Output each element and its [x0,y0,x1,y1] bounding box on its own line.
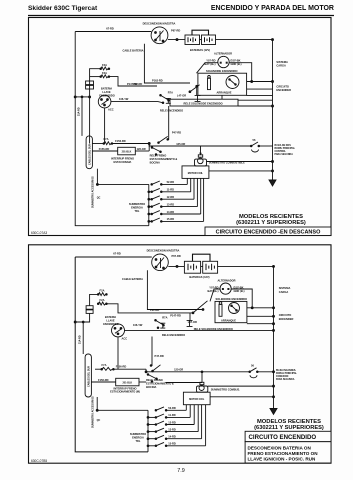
svg-text:LLAVE IGNICION - POSIC. RUN: LLAVE IGNICION - POSIC. RUN [248,457,316,462]
wire cable bateria drop [144,44,190,83]
svg-text:201-BLK: 201-BLK [122,151,132,154]
stub solenoid to relay box [221,95,223,99]
ignition switch S2 [112,324,125,337]
svg-text:F2A: F2A [102,71,107,75]
svg-text:RELE SOLENOIDE ENCENDIDO: RELE SOLENOIDE ENCENDIDO [184,101,223,105]
wire fuel solenoid to bus [207,161,273,163]
svg-text:ENCENDER: ENCENDER [276,88,291,92]
svg-text:ESTACIONAM.: ESTACIONAM. [114,160,132,164]
svg-text:SOLENOIDE ENCENDIDO: SOLENOIDE ENCENDIDO [206,69,238,73]
svg-text:BOCINA: BOCINA [146,385,156,389]
svg-text:21A-RD: 21A-RD [79,335,82,344]
alternator G1 [220,283,231,294]
relay freno cluster [151,147,153,149]
fuse F1 [98,293,105,296]
header rule [28,15,334,17]
svg-text:QC: QC [97,196,101,199]
svg-text:RELE FRENO: RELE FRENO [150,154,167,158]
svg-text:11-RD: 11-RD [167,188,174,192]
svg-text:DESCONEXION BATERIA ON: DESCONEXION BATERIA ON [248,445,312,450]
wire key to relay 106-YW [111,101,158,103]
solenoid terminal [208,78,211,89]
svg-text:INTERRUP FRENO: INTERRUP FRENO [111,156,134,160]
svg-text:FRENO ESTACIONAMIENTO ON: FRENO ESTACIONAMIENTO ON [248,451,319,456]
disconnect switch S1 DESCONEXION MAESTRA [151,27,168,44]
wire relay to bus [189,313,191,320]
svg-text:PARA SEGUNDA: PARA SEGUNDA [276,378,295,381]
svg-text:R7A: R7A [168,91,173,95]
wire switch to batteries [168,265,184,267]
svg-text:CABLE BATERIA: CABLE BATERIA [122,277,143,281]
wire motor coil to bus [210,396,273,398]
relay box RELE SOLENOIDE ENCENDIDO [170,99,238,106]
ignition switch S2 [98,95,111,108]
svg-text:106-YW: 106-YW [119,97,129,101]
ladder switch row 52-RD [155,405,186,411]
svg-text:P67-RD: P67-RD [171,29,180,33]
svg-text:P47-RD: P47-RD [155,354,164,358]
svg-text:SOLENOIDE ENCENDIDO: SOLENOIDE ENCENDIDO [216,297,248,301]
battery B1 [184,261,200,273]
relay coil T1 [166,98,171,103]
ground bus vertical [272,40,274,180]
wire motor coil to bus [209,170,273,172]
svg-text:R7A: R7A [162,315,167,319]
svg-text:DESCONEXION MAESTRA: DESCONEXION MAESTRA [143,21,176,25]
svg-text:ENERGIA: ENERGIA [131,206,143,210]
svg-text:RELE FRENO: RELE FRENO [146,378,163,382]
battery B2 [202,35,216,45]
svg-text:13-RD: 13-RD [168,427,176,431]
bottom schematic frame [29,245,332,463]
fuel solenoid L1 [197,386,208,392]
svg-text:BATERIA: BATERIA [105,315,116,319]
wire glow plug row [146,369,249,372]
wire alternator B+ [197,63,218,73]
svg-text:BUJIA DE DOS: BUJIA DE DOS [275,144,292,147]
svg-text:F156-RD: F156-RD [99,147,110,151]
relay K1 coil contacts [160,94,162,96]
svg-text:SUMINISTRO: SUMINISTRO [129,202,145,206]
svg-text:ALTERNADOR: ALTERNADOR [214,52,232,56]
ladder switch row 13-RD [147,405,198,433]
svg-text:BATERIAS (12V): BATERIAS (12V) [190,48,210,52]
wire key ACC down [104,108,106,144]
svg-text:125-OR: 125-OR [174,368,183,372]
relay K1 contact [196,85,198,87]
relay coil T2 [187,320,193,326]
wire fuse feeds [90,294,99,305]
relay K1 coil contacts [155,319,157,321]
wire left riser to ladder [75,257,148,452]
svg-text:BATERIAS (12V): BATERIAS (12V) [189,275,209,279]
svg-text:DESCONEXION MAESTRA: DESCONEXION MAESTRA [147,248,180,252]
ladder feed row [97,409,148,411]
ground symbol [270,409,277,415]
svg-text:INTERRUP FRENO: INTERRUP FRENO [113,386,136,390]
svg-text:P162-RD: P162-RD [152,79,163,83]
svg-text:CABLES DEL SUR: CABLES DEL SUR [88,366,91,387]
ladder switch row 11-RD [147,405,190,419]
svg-text:TDL: TDL [134,209,139,213]
pill connector CABLES DEL SUR [86,136,92,169]
svg-text:SUMINISTRO: SUMINISTRO [130,432,146,436]
wire alternator GND to solenoid row [229,63,251,82]
glow plug switch 56 [250,145,252,147]
wire fuse feeds [90,69,101,144]
svg-text:14-RD: 14-RD [168,435,176,439]
svg-text:P147-RD: P147-RD [170,314,181,318]
svg-text:ARRANQUE: ARRANQUE [217,91,232,95]
svg-text:52-RD: 52-RD [167,180,175,184]
svg-text:ENERGIA: ENERGIA [132,436,144,440]
svg-text:F156-RD: F156-RD [116,364,127,368]
svg-text:14-RD: 14-RD [167,210,175,214]
svg-text:SUMINISTRO ACCESORIOS: SUMINISTRO ACCESORIOS [92,176,95,208]
wire solenoid to bus row2 [247,88,273,90]
svg-text:ENCENDER: ENCENDER [279,317,294,321]
svg-text:SISTEMA: SISTEMA [276,60,288,64]
battery series bridge [193,254,211,261]
wire fuse2 to relay [106,304,193,313]
svg-text:RELE ENCENDIDO: RELE ENCENDIDO [162,333,185,337]
wire battery to ground bus [216,39,273,41]
SCHEMATIC 2 CONTENT [74,248,297,452]
relay K1 contact [192,312,194,314]
wire 125-OR to fuel solenoid [149,144,200,155]
SCHEMATIC 1 CONTENT [74,21,295,225]
wire battery to ground bus [218,265,274,267]
motor coil box U2 MOTOR COIL [183,392,210,405]
svg-text:ARRANQUE: ARRANQUE [221,318,236,322]
svg-text:CIRCUITO ENCENDIDO: CIRCUITO ENCENDIDO [249,434,317,441]
relay coil T1 [160,323,165,328]
starter motor M1 [229,303,240,314]
svg-text:12-RD: 12-RD [168,420,176,424]
wire cable bateria drop [147,270,203,309]
svg-text:CARGA: CARGA [279,290,289,294]
svg-text:F7A: F7A [104,137,109,141]
svg-text:CONTROL: CONTROL [275,151,287,153]
svg-text:LLAVE: LLAVE [106,318,115,322]
connector blocks [86,306,93,310]
starter solenoid box U1 [215,301,247,322]
starter solenoid box U1 [198,73,247,95]
svg-text:P61-RD: P61-RD [150,308,159,312]
wire to pill connector [82,322,84,354]
top schematic frame [29,18,332,236]
wire pill to brake switch [92,150,117,152]
svg-text:LLAVE: LLAVE [102,90,111,94]
svg-text:ACC: ACC [122,336,128,340]
ladder switch row 14-RD [148,178,201,215]
svg-text:Y07-RD: Y07-RD [206,58,215,62]
ladder switch row 13-RD [148,178,197,207]
solenoid terminal [219,304,222,316]
ground bus vertical [273,266,275,408]
svg-text:F7A: F7A [102,363,107,367]
svg-text:5A: 5A [199,152,202,155]
wire brake switch out [135,150,149,152]
svg-text:BOMB. PRINCIPAL: BOMB. PRINCIPAL [275,147,296,150]
glow plug switch 56 [249,371,251,373]
wire solenoid to bus row1 [247,81,273,83]
wire pill to brake switch [91,381,115,383]
wire left riser to ladder [75,32,149,226]
fuse F3 row [104,142,111,145]
svg-text:BOCINA: BOCINA [150,160,160,164]
svg-text:P67-RD: P67-RD [172,254,181,258]
svg-text:630C-07B5: 630C-07B5 [31,459,47,463]
svg-text:RELE SOLENOIDE ENCENDIDO: RELE SOLENOIDE ENCENDIDO [194,327,233,331]
svg-text:RELE ENCENDIDO: RELE ENCENDIDO [160,109,183,113]
svg-text:67-RD: 67-RD [113,251,121,255]
wire relay to coil [196,86,198,95]
wire solenoid to bus row2 [247,315,274,317]
svg-text:ENCENDIDO Y PARADA DEL MOTOR: ENCENDIDO Y PARADA DEL MOTOR [211,5,334,12]
caption box CIRCUITO ENCENDIDO [245,431,331,441]
starter motor M1 [226,76,239,89]
svg-text:67-RD: 67-RD [106,27,114,31]
ladder switch row 52-RD [151,178,187,185]
svg-text:(6302211 Y SUPERIORES): (6302211 Y SUPERIORES) [236,220,306,226]
switch freno lever [159,136,168,142]
svg-text:PARA SEGUNDA: PARA SEGUNDA [275,153,294,156]
svg-text:125-OR: 125-OR [176,142,185,146]
accessory feed vertical s1 [96,169,98,185]
wire brake switch out [139,381,146,383]
parking brake switch box 201-BLK [118,147,136,155]
svg-text:QC: QC [97,419,101,422]
parking brake switch box 201-BLK [116,378,139,386]
svg-text:11-RD: 11-RD [168,413,175,417]
connector blocks [86,81,94,85]
svg-text:CABLES DEL SUR: CABLES DEL SUR [89,144,92,165]
svg-text:106-YW: 106-YW [133,323,143,327]
battery series bridge [192,30,209,35]
switch freno lever s2 [153,365,161,371]
svg-text:15-RD: 15-RD [168,442,176,446]
svg-text:F156-RD: F156-RD [98,378,109,382]
wire relay drop P47-RD [151,337,152,366]
fuse F1 [101,67,108,70]
relay freno cluster [147,374,149,376]
svg-text:21A-RD: 21A-RD [78,107,81,116]
svg-text:ACC: ACC [108,108,114,112]
battery B2 [203,261,218,273]
svg-text:L47-OR: L47-OR [177,93,186,97]
ladder bus [147,410,149,452]
svg-text:ENCENDIDO: ENCENDIDO [99,93,115,97]
wire key ACC down [117,337,119,369]
motor coil box U2 MOTOR COIL [182,166,209,179]
ladder switch row 15-RD [147,405,206,447]
svg-text:CABLE BATERIA: CABLE BATERIA [123,49,144,53]
ground symbol [269,180,276,186]
fuel solenoid L1 [195,159,207,166]
svg-text:CIRCUITO: CIRCUITO [279,313,292,317]
svg-text:BUJIA INCANDES.: BUJIA INCANDES. [276,369,296,372]
battery B1 [185,35,200,45]
caption box condition list [245,442,331,463]
svg-text:MOTOR COIL: MOTOR COIL [189,398,205,401]
ladder switch row 12-RD [147,405,194,426]
wire key to bus 106-YW [125,329,274,331]
wire switch to batteries [168,39,185,41]
svg-text:CONEXION: CONEXION [276,376,289,378]
svg-text:52-RD: 52-RD [168,406,176,410]
wire relay drop P47-RD [168,106,169,139]
svg-text:DOBLE PRINCIPAL: DOBLE PRINCIPAL [276,372,297,375]
svg-text:126-OR: 126-OR [137,147,146,151]
svg-text:630C-07A3: 630C-07A3 [31,231,47,235]
ladder feed row [97,183,148,185]
svg-text:ALTERNADOR: ALTERNADOR [218,279,236,283]
svg-text:F2A: F2A [100,298,105,302]
disconnect switch S1 DESCONEXION MAESTRA [152,254,169,271]
svg-text:ESTACIONAMIENTO &: ESTACIONAMIENTO & [146,381,174,385]
svg-text:MOTOR COIL: MOTOR COIL [188,172,204,175]
svg-text:CIRCUITO: CIRCUITO [276,84,289,88]
svg-text:BATERIA: BATERIA [101,86,112,90]
wire glow plug row [201,145,251,147]
wire alternator B+ [210,289,220,301]
relay coil T2 [195,95,201,101]
wire freno thick row [166,382,203,384]
svg-text:CIRCUITO ENCENDIDO -EN DESCANS: CIRCUITO ENCENDIDO -EN DESCANSO [216,230,321,236]
svg-text:201-BLK: 201-BLK [122,382,132,385]
svg-text:(6302211 Y SUPERIORES): (6302211 Y SUPERIORES) [254,425,324,431]
svg-text:ESTACIONAMIENTO &: ESTACIONAMIENTO & [150,157,178,161]
wire freno to bus [208,385,274,387]
svg-text:F2A: F2A [100,289,105,293]
svg-text:15-RD: 15-RD [167,217,175,221]
ladder bus [148,184,150,225]
fuse F2 [101,75,108,78]
svg-text:P147-RD: P147-RD [127,82,138,86]
ladder switch row 15-RD [148,178,204,222]
svg-text:12-RD: 12-RD [167,195,175,199]
svg-text:ESTACIONAMIENTO (M): ESTACIONAMIENTO (M) [110,390,140,394]
svg-text:Skidder 630C Tigercat: Skidder 630C Tigercat [28,5,98,12]
accessory feed vertical s2 [96,397,98,410]
svg-text:F156-RD: F156-RD [115,139,126,143]
svg-text:ENCENDIDO: ENCENDIDO [103,322,119,326]
wire connector down [75,313,89,322]
wire fuel solenoid feed [201,372,203,383]
svg-text:SUMINISTRO ACCESORIOS: SUMINISTRO ACCESORIOS [92,396,95,428]
svg-text:P47-RD: P47-RD [172,131,181,135]
svg-text:SISTEMA: SISTEMA [279,286,291,290]
wire 67-RD horizontal [75,31,151,33]
ladder switch row 11-RD [148,178,191,192]
ladder switch row 12-RD [148,178,194,200]
svg-text:E/07-BK: E/07-BK [231,58,241,62]
svg-text:13-RD: 13-RD [167,202,175,206]
wire to pill connector [81,97,83,136]
svg-text:SUMINISTRO COMBUS.: SUMINISTRO COMBUS. [211,388,241,392]
fuse F2 [98,302,105,305]
wire solenoid to bus row3 [247,95,273,97]
pill connector CABLES DEL SUR [85,354,91,397]
wire solenoid to bus row1 [247,307,274,309]
ladder switch row 14-RD [147,405,202,440]
wire fuse2 to relay P147-RD [109,77,157,86]
wire alternator GND to solenoid row [231,289,252,308]
svg-text:F2A: F2A [102,63,107,67]
fuse F3 row [102,367,113,370]
alternator G1 [218,56,229,67]
svg-text:7.9: 7.9 [177,468,185,474]
wire solenoid to bus row3 [247,323,274,325]
svg-text:GND (B-): GND (B-) [234,289,245,293]
caption box CIRCUITO ENCENDIDO -EN DESCANSO [205,227,331,236]
wire 67-RD horizontal [75,256,152,258]
svg-text:CARGA: CARGA [276,63,286,67]
svg-text:TDL: TDL [135,439,140,443]
svg-text:SUMINISTRO COMBUSTIBLE: SUMINISTRO COMBUSTIBLE [209,161,245,165]
